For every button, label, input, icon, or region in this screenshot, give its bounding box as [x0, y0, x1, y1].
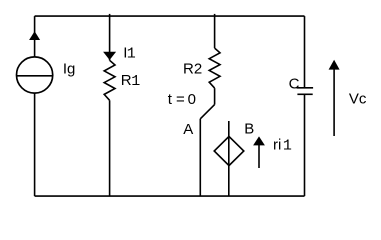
wire capacitor branch bottom [304, 94, 306, 196]
svg-text:t = 0: t = 0 [168, 91, 196, 108]
wire Ig branch bottom [34, 93, 36, 196]
wire Ig branch top [34, 16, 36, 57]
wire top rail [35, 15, 305, 17]
svg-text:ri1: ri1 [273, 137, 292, 155]
arrowhead Vc up [329, 60, 340, 70]
arrow ri1 stem [258, 145, 260, 168]
current source Ig chord [17, 75, 53, 77]
wire R2 branch top [214, 14, 216, 48]
svg-text:Ig: Ig [63, 61, 76, 78]
wire dependent source branch [228, 121, 230, 196]
svg-text:A: A [183, 121, 193, 138]
svg-text:R2: R2 [183, 61, 202, 78]
capacitor C bottom plate [297, 93, 312, 95]
resistor R1 zigzag [104, 60, 115, 100]
wire node A down [199, 119, 201, 196]
wire bottom rail [35, 195, 305, 197]
arrow Vc stem [333, 69, 335, 136]
wire R2 to switch [214, 88, 216, 105]
arrowhead Ig up [29, 31, 40, 40]
wire capacitor branch top [304, 16, 306, 88]
switch blade t=0 [200, 105, 214, 119]
svg-text:B: B [244, 121, 254, 138]
arrowhead ri1 up [253, 136, 265, 145]
svg-text:R1: R1 [121, 72, 141, 90]
arrowhead I1 down [103, 52, 116, 60]
wire R1 branch top [109, 14, 111, 60]
wire R1 branch bottom [109, 100, 111, 196]
svg-text:Vc: Vc [349, 90, 367, 107]
capacitor C top plate [297, 87, 314, 89]
resistor R2 zigzag [209, 48, 220, 88]
svg-text:C: C [289, 75, 300, 92]
svg-text:I1: I1 [123, 45, 135, 63]
current source Ig circle [16, 57, 52, 93]
dependent current source diamond [214, 136, 244, 165]
